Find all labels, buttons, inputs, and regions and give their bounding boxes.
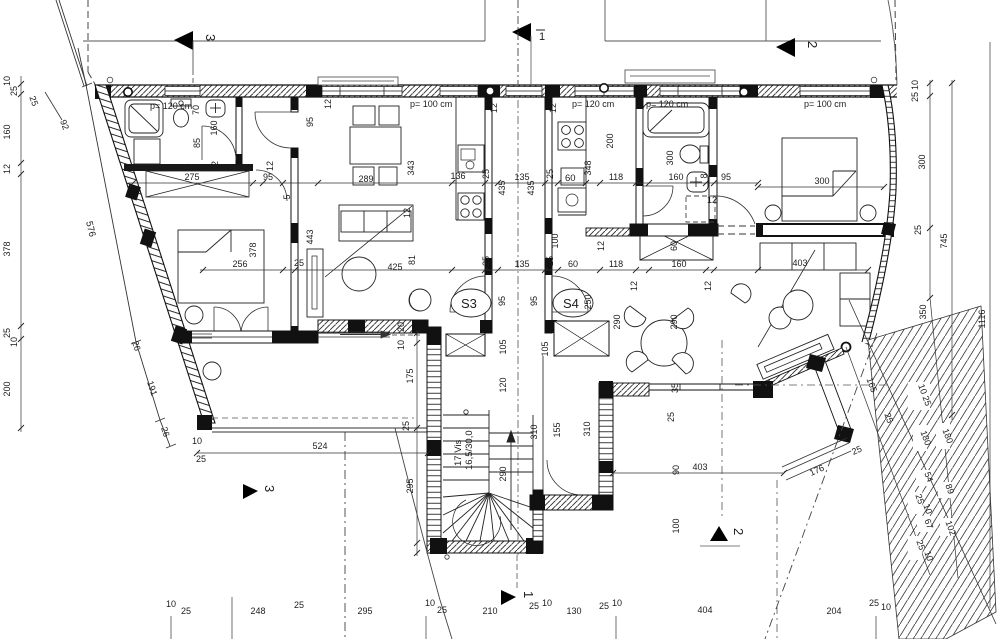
svg-text:1: 1 xyxy=(521,591,536,598)
svg-text:290: 290 xyxy=(498,466,508,481)
door sill lines xyxy=(192,333,212,335)
svg-text:p= 120 cm: p= 120 cm xyxy=(572,99,614,109)
section marker 1 top xyxy=(512,23,531,42)
svg-text:155: 155 xyxy=(552,422,562,437)
svg-text:12: 12 xyxy=(2,164,12,174)
svg-text:95: 95 xyxy=(497,296,507,306)
svg-text:12: 12 xyxy=(489,103,499,113)
top exterior wall band xyxy=(95,85,897,97)
parapet hatch segment xyxy=(613,383,649,396)
window S3 living top xyxy=(322,87,402,96)
bottom tick stubs xyxy=(171,597,876,639)
svg-text:10: 10 xyxy=(425,598,435,608)
svg-text:160: 160 xyxy=(2,124,12,139)
S3 hall door arc from corridor xyxy=(450,276,486,312)
S4 sink xyxy=(558,188,586,212)
living center dashed xyxy=(735,384,897,386)
svg-text:90: 90 xyxy=(671,465,681,475)
svg-text:25: 25 xyxy=(869,598,879,608)
svg-text:25: 25 xyxy=(294,258,304,268)
svg-text:p= 100 cm: p= 100 cm xyxy=(804,99,846,109)
svg-text:17 Vis: 17 Vis xyxy=(453,440,464,466)
svg-text:S3: S3 xyxy=(461,296,477,311)
svg-text:210: 210 xyxy=(482,606,497,616)
svg-text:1116: 1116 xyxy=(977,310,987,329)
section 2 dashed line xyxy=(721,340,723,519)
upper floor outline line left xyxy=(83,40,485,42)
svg-text:200: 200 xyxy=(605,133,615,148)
wall black blocks top xyxy=(95,85,888,99)
svg-text:70: 70 xyxy=(191,105,201,115)
corridor centerline dashed xyxy=(517,100,519,555)
svg-text:443: 443 xyxy=(305,229,315,244)
facade black block xyxy=(881,222,896,236)
stair circle mark xyxy=(464,410,468,414)
S3 bathroom bottom wall xyxy=(124,164,253,171)
svg-text:25: 25 xyxy=(401,421,411,431)
site boundary line left xyxy=(78,48,170,446)
stair treads right flight xyxy=(489,415,533,490)
S4 bath door arc xyxy=(643,186,673,216)
S4 hall closet with X xyxy=(640,224,713,260)
S3 hall-living wall lower xyxy=(291,148,298,337)
stair treads left flight xyxy=(443,410,489,493)
S4 entry door arc xyxy=(552,276,588,312)
terrace wall black diagonal xyxy=(806,354,854,443)
svg-text:204: 204 xyxy=(826,606,841,616)
terrace edge lines xyxy=(782,438,849,472)
S3 door circle xyxy=(409,289,431,311)
S3 bedroom door arc xyxy=(256,170,287,201)
window S4 kitchen top xyxy=(575,87,634,96)
svg-text:350: 350 xyxy=(918,304,928,319)
S4 TV sight line xyxy=(758,250,815,347)
svg-text:100: 100 xyxy=(671,518,681,533)
S3 sink xyxy=(458,145,484,172)
living parapet window band xyxy=(649,384,757,390)
S4 kitchen counter xyxy=(585,97,587,215)
svg-text:105: 105 xyxy=(540,341,550,356)
stair shaft left wall xyxy=(427,327,441,553)
svg-text:105: 105 xyxy=(498,339,508,354)
lower wing right wall xyxy=(599,383,613,495)
left column dims xyxy=(20,76,22,432)
lower wing bottom wall xyxy=(530,495,613,510)
svg-text:256: 256 xyxy=(232,259,247,269)
dim chain horizontal y183 xyxy=(128,182,758,184)
S4 corridor wall xyxy=(545,97,552,333)
svg-text:295: 295 xyxy=(405,478,415,493)
svg-text:10: 10 xyxy=(881,602,891,612)
svg-text:403: 403 xyxy=(792,258,807,268)
S4 doorway dashed xyxy=(717,225,755,227)
svg-text:290: 290 xyxy=(669,314,679,329)
stair side dim line xyxy=(416,330,418,556)
S3 TV sight line xyxy=(325,206,412,277)
dashed setback line top-left xyxy=(87,0,89,72)
small circle on boundary xyxy=(107,77,113,83)
svg-text:95: 95 xyxy=(721,172,731,182)
window corridor top xyxy=(506,87,542,96)
svg-text:200: 200 xyxy=(2,381,12,396)
svg-text:25: 25 xyxy=(545,256,555,266)
svg-text:60: 60 xyxy=(568,259,578,269)
svg-text:p= 120 cm: p= 120 cm xyxy=(646,99,688,109)
left exterior diagonal wall xyxy=(95,85,215,423)
S4 toilet xyxy=(680,145,708,163)
stair shaft right wall xyxy=(533,490,543,541)
svg-text:403: 403 xyxy=(692,462,707,472)
S4 dining table round xyxy=(624,306,693,374)
svg-text:3: 3 xyxy=(262,485,277,492)
S4 sofa right xyxy=(840,273,870,326)
S4 bed xyxy=(782,138,857,221)
svg-text:160: 160 xyxy=(209,120,219,135)
svg-text:10: 10 xyxy=(396,340,406,350)
svg-text:25: 25 xyxy=(481,169,491,179)
dashed section line 2 xyxy=(776,480,778,639)
S3 bedroom french doors xyxy=(214,307,268,334)
right column dims xyxy=(929,80,931,298)
svg-text:524: 524 xyxy=(312,441,327,451)
svg-text:25: 25 xyxy=(545,169,555,179)
S4 hall wall piece xyxy=(586,228,630,236)
svg-text:10: 10 xyxy=(166,599,176,609)
S3 hall-living wall upper xyxy=(291,97,298,112)
terrace parapet xyxy=(212,427,428,429)
corridor centerline dashed top xyxy=(517,0,519,84)
S3 bed xyxy=(178,230,264,303)
diagonal dim chains SE xyxy=(846,347,930,575)
right facade curved wall xyxy=(862,85,896,345)
window above bathroom S3 xyxy=(165,87,200,96)
svg-text:435: 435 xyxy=(526,180,536,195)
S3 wardrobe 275 xyxy=(146,171,249,197)
stair winders xyxy=(443,493,533,546)
svg-text:12: 12 xyxy=(629,281,639,291)
S3 TV cabinet xyxy=(307,249,323,317)
svg-text:25: 25 xyxy=(196,454,206,464)
upper floor outline vertical 2 xyxy=(604,0,606,41)
svg-text:10: 10 xyxy=(2,76,12,86)
right site boundary curve top xyxy=(888,0,897,85)
S4 bed stool left xyxy=(765,205,781,221)
S3 bath door arc xyxy=(202,126,236,160)
boundary tick 92 xyxy=(45,92,62,120)
svg-text:120: 120 xyxy=(498,377,508,392)
dashed setback line top-right xyxy=(895,0,896,80)
S4 TV cabinet 403 xyxy=(760,243,856,270)
S3 dining table xyxy=(350,106,401,185)
svg-text:745: 745 xyxy=(939,233,949,248)
svg-text:p= 120 cm: p= 120 cm xyxy=(150,101,192,111)
dim 176 xyxy=(786,451,851,480)
svg-text:300: 300 xyxy=(814,176,829,186)
svg-text:25: 25 xyxy=(294,600,304,610)
svg-text:25: 25 xyxy=(666,412,676,422)
svg-text:20: 20 xyxy=(396,322,406,332)
svg-text:12: 12 xyxy=(703,281,713,291)
svg-text:12: 12 xyxy=(265,161,275,171)
svg-text:310: 310 xyxy=(529,424,539,439)
terrace dashed roof line xyxy=(212,417,414,419)
S3 washbasin xyxy=(206,100,225,117)
S4 bath left wall xyxy=(636,97,643,224)
svg-text:160: 160 xyxy=(668,172,683,182)
S3 kitchen counter xyxy=(455,97,457,220)
site hatch area bottom right xyxy=(868,306,996,639)
svg-text:12: 12 xyxy=(548,103,558,113)
svg-text:290: 290 xyxy=(612,314,622,329)
svg-text:60: 60 xyxy=(565,173,576,184)
svg-text:10: 10 xyxy=(612,598,622,608)
S3 coffee table xyxy=(342,257,376,291)
svg-text:378: 378 xyxy=(2,241,12,256)
svg-text:10: 10 xyxy=(192,436,202,446)
vent shaft left of stairs xyxy=(446,334,485,356)
lower hall door arc xyxy=(547,460,582,495)
boundary curve lower left of stairs xyxy=(395,428,452,639)
svg-text:12: 12 xyxy=(596,241,606,251)
vent shaft right of corridor xyxy=(554,321,609,356)
svg-text:130: 130 xyxy=(566,606,581,616)
S3 bedroom bottom wall xyxy=(178,331,318,343)
S4 shower screen dashed xyxy=(686,196,715,222)
bedroom dim line 300 xyxy=(758,186,884,188)
stair up arrow xyxy=(507,431,515,530)
dashed road centerline bottom left xyxy=(344,432,346,639)
svg-text:5: 5 xyxy=(282,194,292,199)
svg-text:275: 275 xyxy=(184,172,199,182)
svg-text:1: 1 xyxy=(539,31,545,43)
S4 stove xyxy=(558,122,586,150)
upper floor outline vertical 3 xyxy=(765,0,767,41)
svg-text:10: 10 xyxy=(542,598,552,608)
stair shaft bottom wall xyxy=(427,541,543,553)
upper floor outline vertical 1 xyxy=(484,0,486,41)
svg-text:310: 310 xyxy=(582,421,592,436)
S3 sofa xyxy=(339,205,413,241)
S3 stove xyxy=(458,193,484,220)
corner column circle xyxy=(842,343,851,352)
S3 bathroom partition wall xyxy=(236,97,242,164)
S4 armchair group xyxy=(731,284,813,329)
svg-text:10: 10 xyxy=(9,337,19,347)
svg-text:289: 289 xyxy=(358,174,373,184)
svg-text:25: 25 xyxy=(910,92,920,102)
svg-text:10: 10 xyxy=(910,80,920,90)
svg-text:248: 248 xyxy=(250,606,265,616)
site boundary double line top-left xyxy=(56,0,84,86)
svg-text:404: 404 xyxy=(697,605,712,615)
svg-text:25: 25 xyxy=(913,225,923,235)
SE glazed facade xyxy=(759,348,844,390)
S4 bedroom door arc xyxy=(713,196,755,224)
svg-text:95: 95 xyxy=(263,172,273,182)
S4 60 box xyxy=(561,168,584,185)
svg-text:12: 12 xyxy=(707,195,717,205)
svg-text:175: 175 xyxy=(405,368,415,383)
svg-text:2: 2 xyxy=(805,41,820,48)
svg-text:35: 35 xyxy=(670,383,680,393)
svg-text:5: 5 xyxy=(183,163,193,168)
svg-text:343: 343 xyxy=(406,160,416,175)
svg-text:25: 25 xyxy=(437,605,447,615)
section marker 2 bottom xyxy=(710,526,728,541)
S4 bed stool right xyxy=(860,205,876,221)
svg-text:378: 378 xyxy=(248,242,258,257)
section marker 3 top xyxy=(174,31,193,50)
section marker 3 bottom xyxy=(243,484,258,499)
svg-text:348: 348 xyxy=(583,160,593,175)
svg-text:3: 3 xyxy=(203,34,218,41)
svg-text:16,5/30,0: 16,5/30,0 xyxy=(464,430,475,470)
lower hall left wall line xyxy=(542,356,544,490)
balcony slab above S4 bath xyxy=(625,70,715,83)
window S3 kitchen top xyxy=(440,87,478,96)
svg-text:2: 2 xyxy=(731,528,746,535)
dashed boundary lower right xyxy=(765,333,877,639)
svg-text:12: 12 xyxy=(402,208,412,218)
S4 shaft oval xyxy=(553,289,593,317)
column circles on top wall xyxy=(124,84,748,96)
svg-text:160: 160 xyxy=(671,259,686,269)
S4 bathtub xyxy=(643,103,709,137)
S3 terrace round table xyxy=(203,362,221,380)
svg-text:425: 425 xyxy=(387,262,402,272)
dim 403 bottom xyxy=(613,472,784,474)
ticks y183 xyxy=(130,180,761,186)
svg-text:S4: S4 xyxy=(563,296,579,311)
S4 bedroom bottom wall xyxy=(757,224,893,236)
svg-text:81: 81 xyxy=(407,255,417,265)
entrance path with arrow xyxy=(318,331,420,338)
dim 524 xyxy=(197,452,428,454)
svg-text:136: 136 xyxy=(450,171,465,181)
svg-text:100: 100 xyxy=(550,233,560,248)
svg-text:295: 295 xyxy=(357,606,372,616)
S3 corridor wall xyxy=(485,97,492,333)
svg-text:25: 25 xyxy=(9,86,19,96)
svg-text:25: 25 xyxy=(181,606,191,616)
svg-text:p= 100 cm: p= 100 cm xyxy=(410,99,452,109)
S4 bath right wall xyxy=(709,97,717,236)
S4 bath-closet wall xyxy=(630,224,718,236)
S3 toilet xyxy=(171,99,191,127)
upper floor outline line right xyxy=(605,40,881,42)
svg-text:25: 25 xyxy=(2,328,12,338)
SE corner block left xyxy=(753,381,773,398)
S3 washing machine xyxy=(134,139,160,164)
black blocks on left wall xyxy=(125,183,212,430)
svg-text:250: 250 xyxy=(583,294,593,309)
svg-text:25: 25 xyxy=(529,601,539,611)
S3 living door arc xyxy=(255,112,291,148)
svg-text:95: 95 xyxy=(305,117,315,127)
small circle right band xyxy=(871,77,877,83)
svg-text:95: 95 xyxy=(529,296,539,306)
svg-text:8: 8 xyxy=(699,173,709,178)
svg-text:135: 135 xyxy=(514,259,529,269)
site boundary line through hatch xyxy=(849,300,996,624)
svg-text:118: 118 xyxy=(609,259,623,269)
S3 shower xyxy=(125,100,163,137)
S4 washbasin xyxy=(687,172,708,192)
svg-text:25: 25 xyxy=(599,601,609,611)
window S4 bath top xyxy=(660,87,740,96)
svg-text:435: 435 xyxy=(497,180,507,195)
svg-text:300: 300 xyxy=(665,150,675,165)
SE sliding door leaf xyxy=(757,334,834,379)
S3 bedside table xyxy=(185,306,203,324)
svg-text:12: 12 xyxy=(323,99,333,109)
balcony slab above S3 bath xyxy=(318,77,398,85)
window S4 bedroom top xyxy=(800,87,870,96)
svg-text:25: 25 xyxy=(481,256,491,266)
S3 shaft oval xyxy=(451,289,491,317)
svg-text:60: 60 xyxy=(669,241,679,251)
svg-text:12: 12 xyxy=(210,161,220,171)
section marker 2 top xyxy=(776,38,795,57)
svg-text:300: 300 xyxy=(917,154,927,169)
dim chain horizontal y270 xyxy=(200,269,868,271)
S3 living bottom wall xyxy=(294,320,428,343)
boundary ticks xyxy=(82,83,176,448)
svg-text:85: 85 xyxy=(192,138,202,148)
section marker 1 bottom xyxy=(501,590,516,605)
svg-text:118: 118 xyxy=(609,172,623,182)
